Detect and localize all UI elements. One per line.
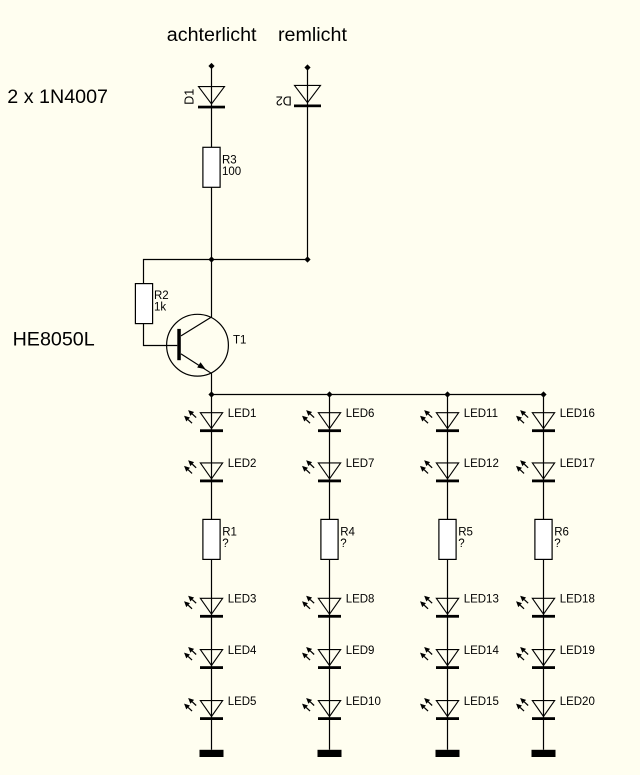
svg-text:100: 100 <box>222 166 241 178</box>
svg-text:LED20: LED20 <box>560 696 595 708</box>
svg-text:LED10: LED10 <box>346 696 381 708</box>
svg-text:LED3: LED3 <box>228 594 257 606</box>
svg-text:LED11: LED11 <box>464 408 498 420</box>
svg-text:LED16: LED16 <box>560 408 595 420</box>
svg-text:?: ? <box>222 538 228 550</box>
svg-text:?: ? <box>458 538 464 550</box>
svg-text:R2: R2 <box>154 290 169 302</box>
svg-text:T1: T1 <box>233 335 246 347</box>
svg-text:R6: R6 <box>554 526 569 538</box>
svg-text:2 x 1N4007: 2 x 1N4007 <box>7 86 108 108</box>
svg-text:D2: D2 <box>276 93 292 107</box>
svg-text:LED17: LED17 <box>560 458 595 470</box>
svg-text:LED5: LED5 <box>228 696 257 708</box>
svg-text:LED7: LED7 <box>346 458 375 470</box>
svg-text:?: ? <box>340 538 346 550</box>
svg-text:HE8050L: HE8050L <box>13 328 95 350</box>
svg-text:LED14: LED14 <box>464 645 500 657</box>
svg-text:?: ? <box>554 538 560 550</box>
svg-text:R3: R3 <box>222 154 237 166</box>
svg-text:R1: R1 <box>222 526 237 538</box>
svg-text:LED13: LED13 <box>464 594 499 606</box>
svg-text:LED2: LED2 <box>228 458 257 470</box>
svg-text:remlicht: remlicht <box>278 24 347 46</box>
svg-text:LED15: LED15 <box>464 696 499 708</box>
svg-text:LED18: LED18 <box>560 594 595 606</box>
svg-text:1k: 1k <box>154 301 166 313</box>
svg-text:LED8: LED8 <box>346 594 375 606</box>
svg-text:LED9: LED9 <box>346 645 375 657</box>
svg-text:R5: R5 <box>458 526 473 538</box>
svg-text:LED19: LED19 <box>560 645 595 657</box>
svg-text:LED12: LED12 <box>464 458 499 470</box>
svg-text:D1: D1 <box>183 89 197 105</box>
svg-text:LED6: LED6 <box>346 408 375 420</box>
svg-text:R4: R4 <box>340 526 355 538</box>
svg-text:achterlicht: achterlicht <box>167 24 257 46</box>
svg-text:LED4: LED4 <box>228 645 257 657</box>
svg-text:LED1: LED1 <box>228 408 257 420</box>
